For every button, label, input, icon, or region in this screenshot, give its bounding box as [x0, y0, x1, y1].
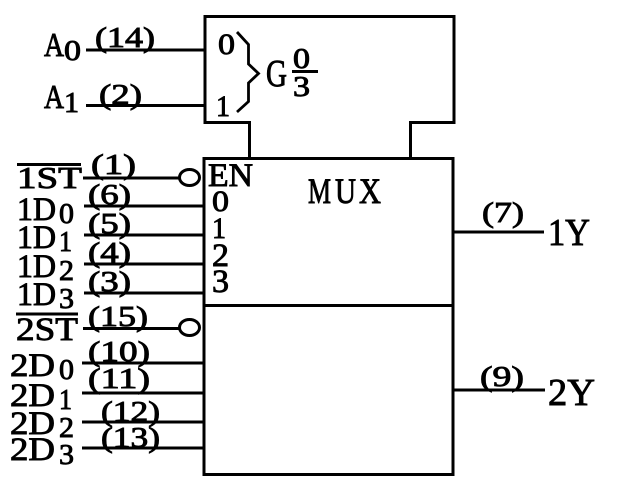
- wire 2Y: [452, 389, 545, 392]
- svg-text:(11): (11): [88, 363, 150, 395]
- svg-text:1: 1: [216, 90, 230, 123]
- wire 2D0: [82, 362, 204, 365]
- svg-text:1: 1: [59, 226, 72, 258]
- select block bottom-right segment: [409, 121, 456, 124]
- svg-text:1: 1: [64, 87, 79, 119]
- svg-text:M: M: [308, 171, 331, 211]
- svg-text:G: G: [266, 53, 287, 95]
- label 2ST with overline: [16, 313, 78, 316]
- section divider: [204, 304, 452, 307]
- wire 2D2: [82, 421, 204, 424]
- wire 1D0: [84, 205, 204, 208]
- svg-text:(9): (9): [480, 361, 524, 393]
- svg-text:A: A: [44, 27, 64, 64]
- svg-text:3: 3: [212, 264, 229, 300]
- fraction bar: [292, 70, 318, 73]
- MUX body box: [204, 159, 453, 475]
- svg-text:0: 0: [59, 354, 74, 386]
- wire 2D1: [82, 392, 204, 395]
- bubble 1ST: [180, 170, 200, 186]
- svg-text:2ST: 2ST: [16, 312, 78, 348]
- svg-text:3: 3: [59, 439, 74, 471]
- svg-text:1Y: 1Y: [548, 212, 590, 254]
- bubble 2ST: [180, 320, 200, 336]
- wire 1D3: [84, 292, 204, 295]
- svg-text:1D: 1D: [17, 277, 56, 313]
- svg-text:(7): (7): [482, 197, 524, 229]
- wire 1Y: [452, 231, 544, 234]
- svg-text:1ST: 1ST: [17, 160, 82, 195]
- label 1ST with overline: [17, 163, 81, 166]
- select block box (common control block): [205, 17, 454, 125]
- right neck stub: [409, 123, 412, 158]
- wire A1: [86, 104, 205, 107]
- svg-text:(1): (1): [91, 149, 136, 181]
- wire 1D1: [84, 234, 204, 237]
- svg-text:3: 3: [59, 283, 74, 315]
- left neck stub: [248, 123, 251, 158]
- brace: [237, 32, 259, 112]
- wire 2D3: [82, 447, 204, 450]
- select block bottom-left segment: [204, 121, 252, 124]
- svg-text:3: 3: [293, 72, 310, 103]
- svg-text:X: X: [359, 171, 381, 211]
- svg-text:U: U: [335, 171, 356, 211]
- svg-text:A: A: [44, 79, 64, 116]
- svg-text:0: 0: [64, 35, 81, 67]
- wire 1D2: [84, 263, 204, 266]
- wire A0: [86, 49, 205, 52]
- wire 2ST: [83, 327, 182, 330]
- wire 1ST: [83, 177, 182, 180]
- svg-text:2Y: 2Y: [548, 372, 595, 414]
- svg-text:0: 0: [218, 28, 235, 61]
- svg-text:2D: 2D: [10, 432, 55, 468]
